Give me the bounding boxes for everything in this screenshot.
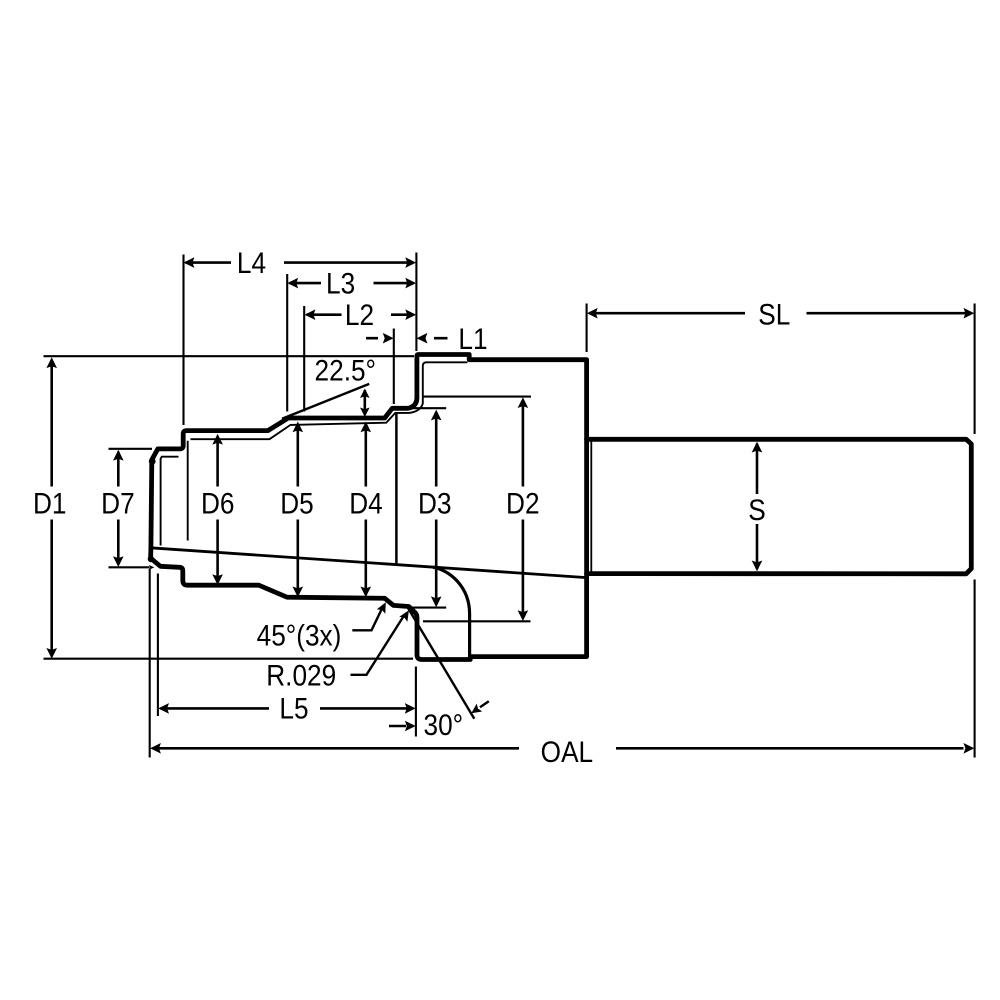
svg-text:D6: D6 — [201, 487, 235, 520]
corner radius blend arc — [433, 567, 470, 656]
svg-text:D2: D2 — [506, 487, 540, 520]
svg-text:D5: D5 — [280, 487, 314, 520]
svg-text:30°: 30° — [423, 709, 463, 742]
svg-text:D4: D4 — [349, 487, 383, 520]
taper line — [151, 548, 587, 578]
45deg leader — [352, 610, 381, 631]
corner knobs — [149, 458, 156, 465]
svg-text:OAL: OAL — [541, 736, 593, 769]
svg-text:L5: L5 — [279, 692, 308, 725]
30 deg reference line — [407, 606, 475, 719]
svg-text:L1: L1 — [458, 322, 487, 355]
22.5 deg reference line — [282, 384, 369, 419]
svg-text:D7: D7 — [101, 487, 135, 520]
svg-text:45°(3x): 45°(3x) — [257, 619, 342, 652]
R.029 leader — [351, 617, 404, 675]
extension lines — [44, 253, 975, 758]
arrowheads — [184, 257, 195, 268]
svg-text:SL: SL — [758, 298, 790, 331]
body back face — [584, 438, 589, 574]
svg-text:S: S — [748, 493, 765, 526]
tool body outline — [151, 355, 972, 660]
shank start edge — [590, 441, 592, 572]
svg-text:D3: D3 — [418, 487, 452, 520]
dimension lines — [52, 263, 966, 749]
svg-text:R.029: R.029 — [266, 659, 336, 692]
svg-text:L4: L4 — [237, 246, 266, 279]
svg-text:L2: L2 — [345, 299, 374, 332]
inner echo contour — [161, 457, 179, 546]
svg-text:22.5°: 22.5° — [315, 354, 376, 387]
flute edge line — [395, 414, 398, 565]
svg-text:D1: D1 — [33, 487, 67, 520]
svg-text:L3: L3 — [326, 267, 355, 300]
